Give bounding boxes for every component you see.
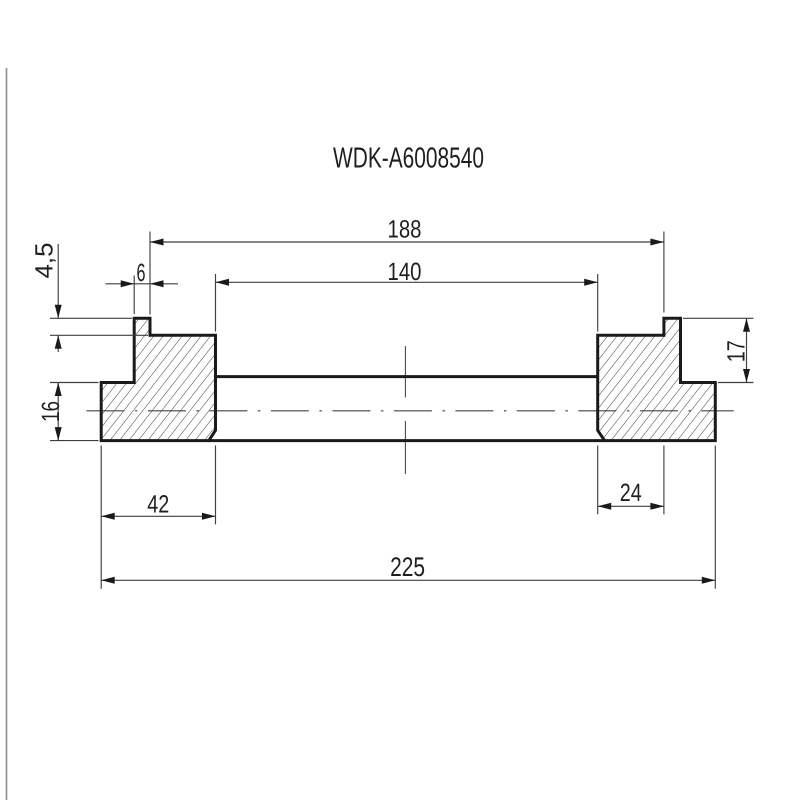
dim 4,5 line above — [57, 244, 59, 318]
dim 6 line — [106, 283, 179, 285]
dim 6 arrow right (outside) — [150, 280, 164, 287]
svg-text:6: 6 — [137, 259, 146, 287]
svg-text:17: 17 — [723, 340, 751, 362]
dim 16 extension line lower (y=440.6) — [50, 440, 99, 442]
dim 16 extension line upper (y=382.5) — [50, 382, 99, 384]
dim 4,5 extension line upper (y=318.3) — [50, 317, 132, 319]
dim 140 arrow left — [216, 279, 230, 286]
dim 140 line — [216, 281, 598, 283]
svg-text:WDK-A6008540: WDK-A6008540 — [333, 142, 484, 174]
dim 42 line — [101, 515, 215, 517]
dim 24 extension line right (x=663.9) — [663, 446, 665, 515]
svg-text:24: 24 — [620, 479, 642, 507]
dim 6 extension line left (x=134.2) — [133, 276, 135, 315]
dim 140 extension line left (x=215.5) — [215, 274, 217, 332]
dim 225 arrow right — [702, 577, 716, 584]
left rim block (hatched) — [101, 318, 215, 440]
dim 17 arrow upper — [743, 318, 750, 332]
dim 140 extension line right (x=597.7) — [597, 274, 599, 332]
dim 188 extension line left (x=150) — [149, 232, 151, 315]
centerline horizontal (dash-dot) — [86, 410, 733, 412]
dim 225 arrow left — [101, 577, 115, 584]
svg-text:225: 225 — [390, 552, 425, 582]
svg-text:4,5: 4,5 — [31, 243, 59, 279]
dim 24 arrow left — [598, 503, 612, 510]
dim 188 line — [150, 241, 664, 243]
right rim block (hatched) — [598, 318, 716, 440]
dim 17 line — [746, 318, 748, 382]
centerline vertical segment upper — [404, 346, 406, 398]
dim 42 arrow right — [202, 513, 216, 520]
dim 42 arrow left — [101, 513, 115, 520]
svg-text:42: 42 — [147, 491, 169, 519]
dim 24 line — [598, 505, 664, 507]
dim 188 arrow left — [150, 239, 164, 246]
dim 4,5 arrow upper (outside, pointing down) — [55, 305, 62, 319]
dim 17 extension line upper (y=318.3) — [683, 317, 754, 319]
dim 188 arrow right — [650, 239, 664, 246]
dim 225 extension line right (x=715.3) — [714, 446, 716, 589]
dim 17 extension line lower (y=382.5) — [718, 382, 754, 384]
centerline vertical segment lower — [404, 421, 406, 474]
dim 24 extension line left (x=597.7) — [597, 446, 599, 515]
dim 188 extension line right (x=663.9) — [663, 232, 665, 313]
dim 17 arrow lower — [743, 369, 750, 383]
dim 140 arrow right — [584, 279, 598, 286]
dim 6 arrow left (outside) — [121, 280, 135, 287]
dim 42 extension line right (x=215.5) — [215, 446, 217, 525]
dim 24 arrow right — [650, 503, 664, 510]
dim 225 line — [101, 579, 715, 581]
dim 4,5 arrow lower (outside, pointing up) — [55, 335, 62, 349]
svg-text:188: 188 — [388, 216, 422, 244]
frame border line (left) — [6, 68, 8, 800]
dim 16 arrow upper — [55, 383, 62, 397]
dim 16 line — [57, 383, 59, 441]
svg-text:16: 16 — [37, 401, 65, 422]
svg-text:140: 140 — [388, 258, 422, 286]
dim 42 extension line left (x=101.2) — [100, 446, 102, 589]
dim 4,5 extension line lower (y=335.3) — [50, 334, 148, 336]
dim 16 arrow lower — [55, 427, 62, 441]
dim 4,5 line below — [57, 335, 59, 352]
web bottom edge — [209, 439, 605, 442]
web top edge — [216, 375, 598, 378]
